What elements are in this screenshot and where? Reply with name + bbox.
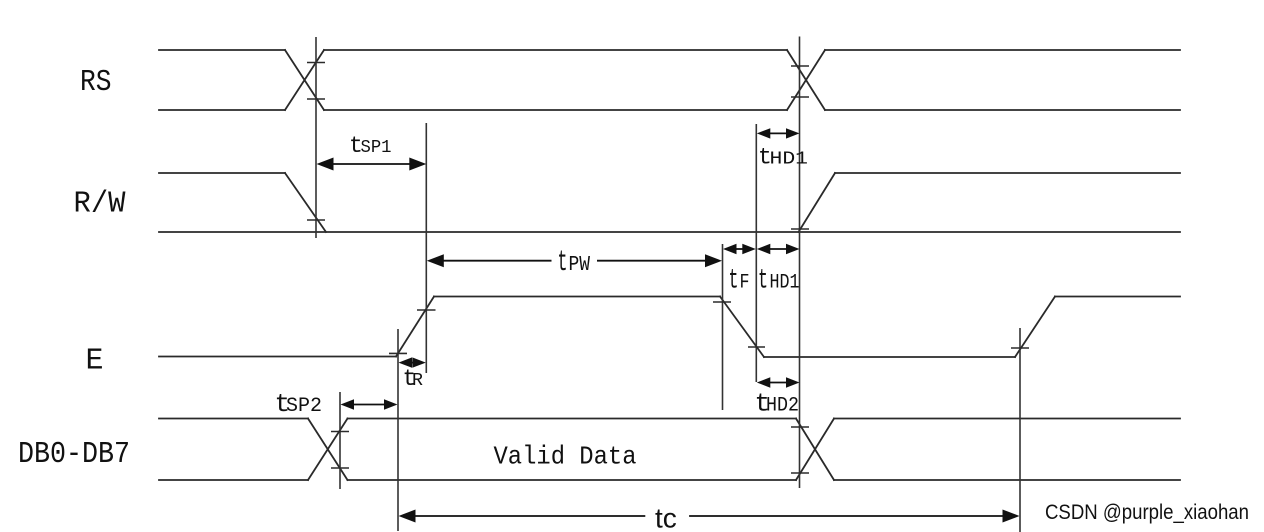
dimension arrow tHD1 top bbox=[768, 132, 788, 134]
dimension arrow tC left part bbox=[412, 515, 645, 517]
wire DB low segment 3 bbox=[834, 479, 1180, 481]
E rising edge 2 bbox=[1015, 297, 1055, 358]
svg-text:Valid Data: Valid Data bbox=[494, 442, 637, 472]
reference line V8 at x=799.5 bbox=[799, 37, 801, 489]
wire E high segment right bbox=[1055, 296, 1180, 298]
wire E low segment left bbox=[159, 356, 396, 358]
tick on DB crossing 2 upper bbox=[791, 426, 809, 428]
tick on RS crossing 2 upper bbox=[791, 65, 809, 67]
dimension arrow tSP1 bbox=[330, 163, 413, 165]
dimension arrow tHD1 middle bbox=[768, 248, 788, 250]
wire DB high segment 2 bbox=[348, 418, 797, 420]
dimension arrow tPW right part bbox=[597, 260, 709, 262]
svg-text:tc: tc bbox=[655, 503, 677, 532]
E rising edge 1 bbox=[396, 297, 434, 357]
svg-text:DB0-DB7: DB0-DB7 bbox=[18, 437, 130, 472]
svg-text:PW: PW bbox=[569, 253, 591, 277]
wire RS low segment 3 bbox=[825, 109, 1180, 111]
R/W falling edge bbox=[285, 173, 326, 232]
wire RS low segment 2 bbox=[324, 109, 787, 111]
reference line V3 at x=398 bbox=[397, 329, 399, 531]
DB bus crossing 1 bbox=[308, 419, 348, 481]
RS transition crossing 1 bbox=[285, 50, 324, 110]
dimension arrow tHD2 bbox=[768, 382, 788, 384]
wire R/W high segment right bbox=[835, 172, 1180, 174]
reference line V1 at x=316 bbox=[315, 37, 317, 238]
svg-text:R: R bbox=[412, 371, 423, 391]
wire RS high segment 3 bbox=[825, 49, 1180, 51]
wire R/W low full bbox=[159, 231, 1180, 233]
tick on DB crossing 1 lower bbox=[331, 467, 349, 469]
wire DB low segment 1 bbox=[159, 479, 308, 481]
tick on RS crossing 2 lower bbox=[791, 96, 809, 98]
svg-text:F: F bbox=[740, 272, 750, 295]
tick on E falling edge top bbox=[713, 301, 731, 303]
dimension arrow tSP2 bbox=[352, 404, 386, 406]
E falling edge bbox=[720, 297, 764, 358]
svg-text:SP1: SP1 bbox=[361, 138, 392, 158]
svg-text:E: E bbox=[86, 344, 104, 379]
DB bus crossing 2 bbox=[796, 419, 834, 481]
tick on E rising edge 1 bottom bbox=[389, 352, 407, 354]
wire RS high segment 2 bbox=[324, 49, 787, 51]
wire DB high segment 1 bbox=[159, 418, 308, 420]
svg-text:CSDN @purple_xiaohan: CSDN @purple_xiaohan bbox=[1045, 501, 1249, 524]
svg-text:HD2: HD2 bbox=[766, 395, 799, 418]
tick on DB crossing 1 upper bbox=[331, 431, 349, 433]
dimension arrow tPW left part bbox=[440, 260, 552, 262]
tick on R/W falling edge bbox=[307, 219, 325, 221]
wire DB high segment 3 bbox=[834, 418, 1180, 420]
svg-text:R/W: R/W bbox=[74, 187, 126, 222]
reference line V5 at x=722.5 bbox=[722, 244, 724, 410]
svg-text:t: t bbox=[729, 266, 739, 297]
wire RS high segment 1 bbox=[159, 49, 285, 51]
wire R/W high segment left bbox=[159, 172, 285, 174]
tick on E rising edge 2 bbox=[1011, 347, 1029, 349]
dimension arrow tF bbox=[734, 248, 745, 250]
RS transition crossing 2 bbox=[787, 50, 825, 110]
tick on RS crossing 1 lower bbox=[307, 98, 325, 100]
svg-text:t: t bbox=[758, 266, 768, 297]
reference line V7 at x=1020 bbox=[1019, 328, 1021, 532]
tick on RS crossing 1 upper bbox=[307, 62, 325, 64]
dimension arrow tC right part bbox=[689, 515, 1008, 517]
tick on E falling edge bottom bbox=[748, 346, 765, 348]
reference line V4 at x=340 bbox=[339, 392, 341, 489]
svg-text:HD1: HD1 bbox=[770, 272, 800, 295]
wire RS low segment 1 bbox=[159, 109, 285, 111]
tick on DB crossing 2 lower bbox=[791, 472, 809, 474]
reference line V6 at x=756.3 bbox=[755, 124, 757, 382]
wire E high segment bbox=[434, 296, 720, 298]
wire E low segment middle bbox=[764, 356, 1015, 358]
wire DB low segment 2 bbox=[348, 479, 797, 481]
reference line V2 at x=426.3 bbox=[425, 123, 427, 373]
dimension arrow tR bbox=[410, 362, 414, 364]
R/W rising edge right bbox=[799, 173, 836, 232]
svg-text:HD1: HD1 bbox=[770, 150, 809, 170]
svg-text:RS: RS bbox=[80, 65, 112, 100]
svg-text:SP2: SP2 bbox=[286, 395, 322, 418]
tick on E rising edge 1 top bbox=[417, 309, 436, 311]
tick on R/W rising edge bbox=[791, 228, 809, 230]
svg-text:t: t bbox=[558, 246, 568, 280]
